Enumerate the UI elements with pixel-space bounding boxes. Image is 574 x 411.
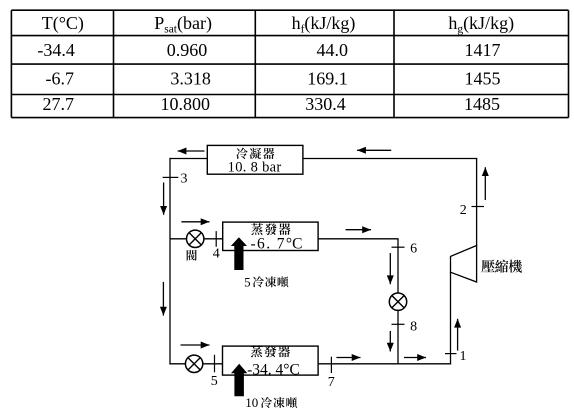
node 8 tick [392, 323, 405, 325]
flow arrow before node 1 (up) [454, 319, 461, 351]
table grid [11, 10, 568, 117]
flow arrow middle down upper [387, 253, 394, 284]
wire top-left from condenser to left corner [170, 158, 208, 160]
flow arrow right up (above node 2) [482, 167, 489, 200]
svg-text:44.0: 44.0 [317, 40, 349, 60]
svg-text:27.7: 27.7 [42, 94, 74, 114]
svg-text:330.4: 330.4 [305, 94, 346, 114]
svg-text:-34.4: -34.4 [37, 40, 75, 60]
compressor U1 trapezoid [451, 246, 477, 283]
valve V1 (expansion, node4 row) [187, 230, 204, 247]
node 5 tick [214, 355, 216, 373]
evaporator1 box [223, 222, 318, 250]
flow arrow right of evaporator1 (right) [346, 226, 371, 233]
svg-text:7: 7 [328, 375, 335, 390]
svg-text:1455: 1455 [465, 69, 501, 89]
flow arrow top-right (points left) [357, 147, 391, 154]
flow arrow left down lower [160, 282, 167, 316]
flow arrow top-left (points left) [178, 148, 205, 155]
wire evaporator1 row left (valve to box, node 4) [170, 238, 223, 240]
table data rows [37, 40, 500, 114]
flow arrow above valve V2 (right) [181, 342, 210, 349]
condenser label 冷凝器 [236, 148, 274, 159]
svg-text:Psat(bar): Psat(bar) [154, 13, 212, 36]
svg-text:169.1: 169.1 [307, 69, 348, 89]
wire right vertical down to compressor (node 2) [476, 158, 478, 246]
heat load label 5冷凍噸 [244, 274, 288, 289]
wire evaporator1 row right (box to middle line, node 6) [318, 238, 399, 240]
svg-text:hg(kJ/kg): hg(kJ/kg) [448, 13, 514, 36]
svg-text:1417: 1417 [465, 40, 501, 60]
wire middle vertical (nodes 6-8) [397, 239, 399, 364]
node 4 tick [215, 231, 217, 247]
node 7 tick [330, 357, 332, 373]
svg-text:3: 3 [181, 172, 188, 187]
table header row [42, 13, 514, 36]
svg-text:0.960: 0.960 [167, 40, 208, 60]
svg-text:3.318: 3.318 [170, 69, 211, 89]
valve V2 (expansion, node5 row) [185, 355, 202, 372]
svg-text:1: 1 [460, 349, 467, 364]
svg-text:2: 2 [460, 203, 467, 218]
flow arrow bottom mid-right (right) [404, 354, 426, 361]
valve label 閥 [187, 250, 197, 261]
thick heat arrow into evaporator2 (10 ton) [231, 364, 247, 397]
svg-text:hf(kJ/kg): hf(kJ/kg) [292, 13, 356, 36]
svg-text:T(°C): T(°C) [42, 13, 84, 34]
svg-text:10. 8 bar: 10. 8 bar [228, 160, 282, 176]
svg-text:-6. 7°C: -6. 7°C [251, 235, 303, 252]
flow arrow after node 7 (right) [336, 354, 360, 361]
heat load label 10冷凍噸 [245, 395, 297, 410]
flow arrow above valve V1 (right) [181, 218, 209, 225]
flow arrow left down upper [160, 183, 167, 215]
node 6 tick [392, 246, 405, 248]
svg-text:5: 5 [244, 274, 251, 289]
evaporator2 box [223, 346, 319, 375]
node 2 tick [472, 206, 485, 208]
evaporator1 label 蒸發器 [251, 223, 290, 235]
svg-text:6: 6 [410, 242, 417, 257]
node 3 tick [163, 176, 179, 178]
svg-text:-6.7: -6.7 [46, 69, 75, 89]
svg-text:8: 8 [410, 319, 417, 334]
svg-text:-34. 4°C: -34. 4°C [247, 361, 300, 378]
flow arrow middle down lower [387, 331, 394, 352]
svg-text:10.800: 10.800 [160, 94, 210, 114]
evaporator2 label 蒸發器 [251, 345, 290, 357]
wire left vertical (node 3) [169, 158, 171, 365]
svg-text:1485: 1485 [464, 94, 500, 114]
svg-text:5: 5 [211, 374, 218, 389]
svg-text:10: 10 [245, 395, 258, 410]
wire top-right from condenser to right corner [302, 158, 477, 160]
condenser box [207, 145, 303, 174]
valve V3 (expansion, node8 line) [389, 293, 406, 310]
wire bottom row (valve2, evaporator2, nodes 5,7,1) [169, 363, 451, 365]
node 1 tick [445, 353, 457, 355]
svg-text:4: 4 [213, 247, 220, 262]
compressor label 壓縮機 [481, 260, 522, 273]
wire right-bottom vertical up to compressor (node 1) [450, 272, 452, 364]
thick heat arrow into evaporator1 (5 ton) [231, 237, 247, 270]
